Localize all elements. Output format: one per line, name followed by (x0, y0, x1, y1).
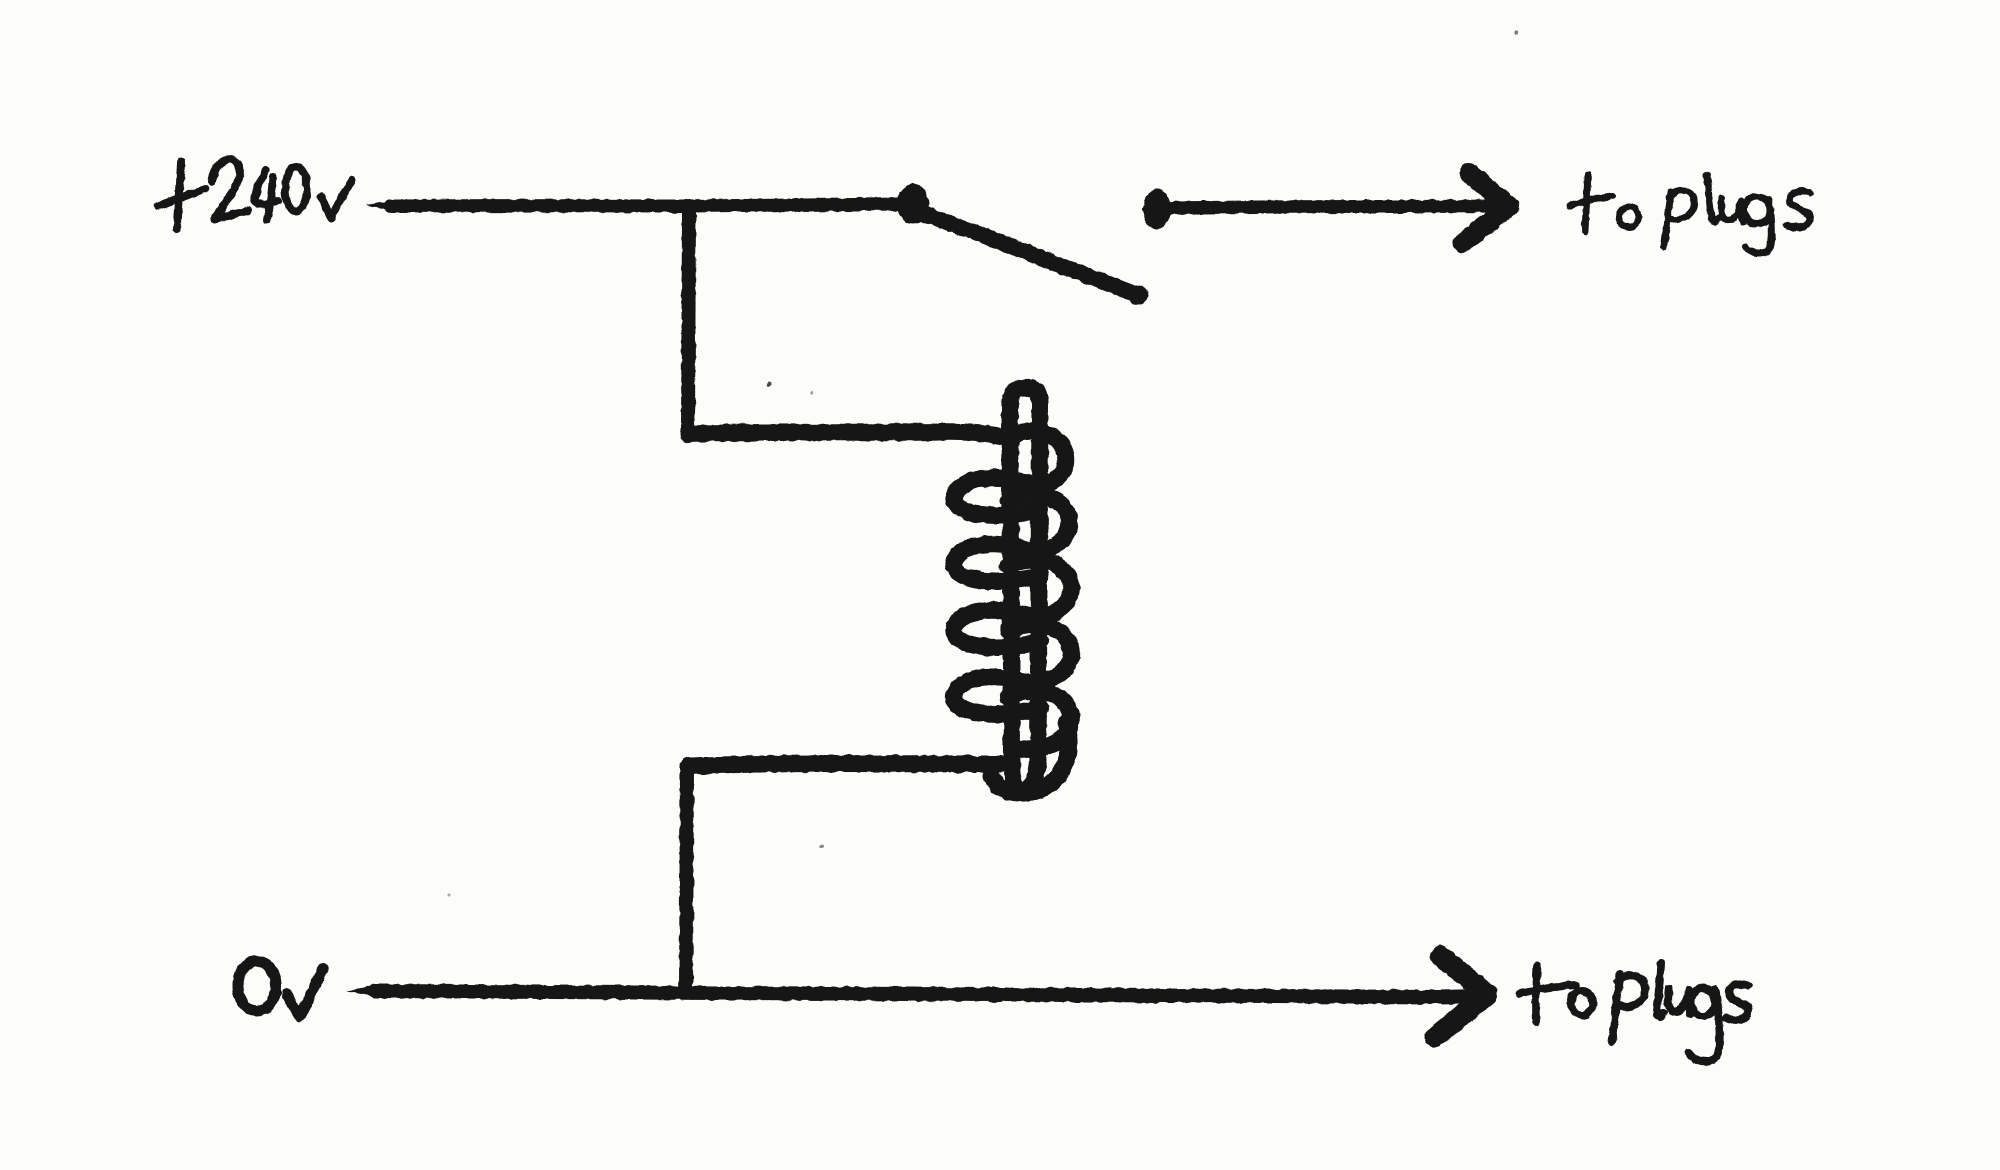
arrow top to plugs (1463, 173, 1509, 243)
wire coil feed bottom (689, 764, 1000, 767)
switch arm (922, 213, 1140, 296)
wire top rail (390, 204, 902, 206)
wire bottom rail (375, 991, 1440, 997)
switch contact dot right (1143, 189, 1171, 229)
arrow bottom to plugs (1435, 956, 1487, 1037)
wire top output (1172, 206, 1492, 208)
switch contact dot left (897, 184, 929, 224)
label to plugs top (1570, 174, 1810, 253)
relay coil K1 (954, 388, 1071, 794)
label 0v (238, 961, 323, 1016)
wire junction vertical (688, 206, 689, 432)
label to plugs bottom (1519, 963, 1748, 1062)
label +240v (158, 160, 352, 229)
wire vertical to bottom rail (686, 766, 687, 991)
wire coil feed top (689, 432, 1008, 438)
